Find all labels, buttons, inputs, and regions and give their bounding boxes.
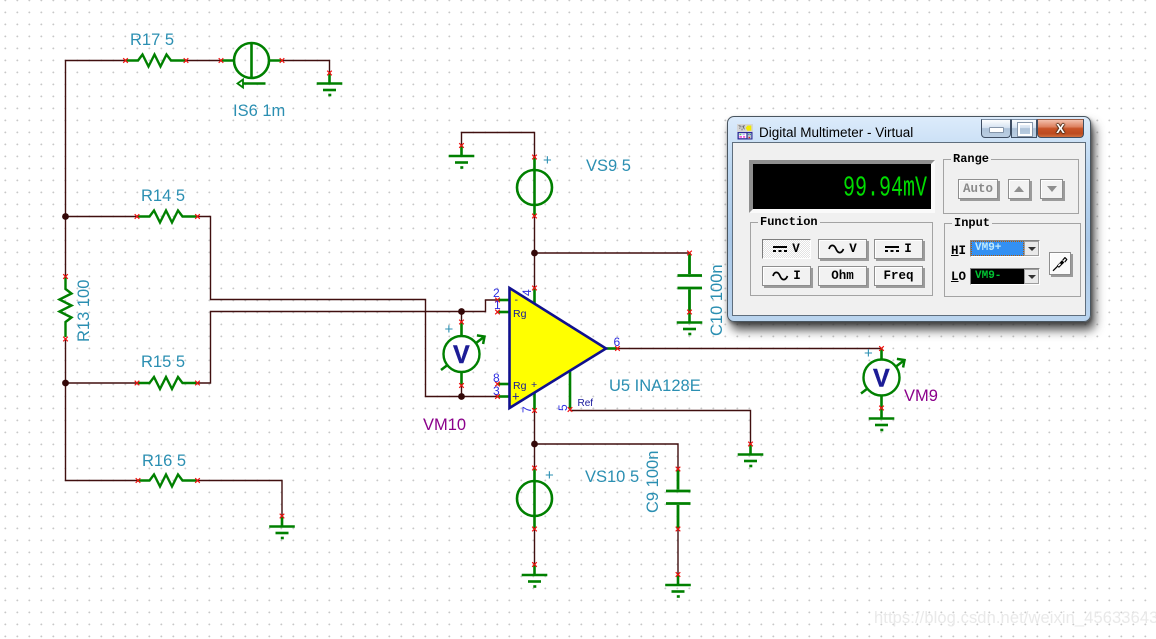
pin 2 stub xyxy=(498,299,511,302)
node x VM10 bottom xyxy=(459,383,464,388)
node x VS9 minus xyxy=(532,214,537,219)
down arrow button xyxy=(1040,179,1063,199)
ground G6 (Ref) xyxy=(738,444,764,466)
pin 8 stub xyxy=(498,383,511,386)
svg-text:+: + xyxy=(445,321,454,338)
svg-text:VM10: VM10 xyxy=(423,416,466,434)
svg-text:5: 5 xyxy=(556,404,570,411)
node x pin1 xyxy=(495,310,500,315)
node x VS9 plus xyxy=(532,155,537,160)
junction: left rail / R14 xyxy=(62,213,69,220)
junction: V- node xyxy=(531,441,538,448)
wire: IS6 right to ground G1 xyxy=(282,61,330,74)
node x C10 top xyxy=(687,251,692,256)
node x C9 bottom xyxy=(676,527,681,532)
LCD display xyxy=(749,160,935,213)
node x VS10 top xyxy=(532,466,537,471)
node x G8 xyxy=(280,514,285,519)
Function group xyxy=(750,222,933,296)
Digital Multimeter window xyxy=(727,116,1091,322)
node x R16 right xyxy=(195,478,200,483)
node x pin6 xyxy=(615,346,620,351)
node x G5 xyxy=(676,572,681,577)
node x VS10 bottom xyxy=(532,527,537,532)
junction: VM10 top / lower line xyxy=(458,308,465,315)
svg-text:R15 5: R15 5 xyxy=(141,353,185,371)
pin 7 stub xyxy=(533,392,536,411)
svg-text:R14 5: R14 5 xyxy=(141,187,185,205)
svg-text:C10 100n: C10 100n xyxy=(708,264,726,336)
wire: R14 right down to upper line across to pin3 line xyxy=(198,217,498,397)
wire: VM10 top tap xyxy=(461,312,463,323)
voltage source VS9 xyxy=(517,157,552,216)
node x R17 left xyxy=(123,58,128,63)
node x R13 bottom xyxy=(63,337,68,342)
current source IS6 xyxy=(221,43,282,88)
pin 1 stub xyxy=(498,311,511,314)
voltmeter VM9 xyxy=(861,349,905,409)
capacitor C10 xyxy=(678,253,703,312)
svg-text:IS6 1m: IS6 1m xyxy=(233,102,285,120)
node x G2 xyxy=(459,143,464,148)
wire: pin5 Ref to ground G6 xyxy=(570,411,751,445)
svg-text:R16 5: R16 5 xyxy=(142,452,186,470)
node x VM10 top xyxy=(459,320,464,325)
resistor R15 xyxy=(137,377,198,389)
voltmeter VM10 xyxy=(441,322,485,386)
Ohm button xyxy=(818,266,867,286)
wire: V- node to C9 top xyxy=(535,444,679,469)
terminal x marks xyxy=(63,58,884,577)
window buttons xyxy=(981,119,1011,138)
ground G2 (VS9 top) xyxy=(449,146,475,168)
wire: C9 bottom to ground G5 xyxy=(677,529,679,575)
pin 3 stub xyxy=(498,395,511,398)
wire: R15 node to R15 left xyxy=(66,382,138,384)
junction: left rail / R15 xyxy=(62,380,69,387)
HI combo xyxy=(970,240,1040,257)
AC I button xyxy=(762,266,811,286)
node x pin8 xyxy=(495,382,500,387)
svg-text:VS9 5: VS9 5 xyxy=(586,157,631,175)
node x VM9 bottom xyxy=(879,406,884,411)
svg-text:+: + xyxy=(545,467,554,484)
svg-text:R13 100: R13 100 xyxy=(75,280,93,342)
watermark xyxy=(874,609,1156,628)
LO label xyxy=(951,270,966,284)
node x pin3 xyxy=(495,394,500,399)
resistor R16 xyxy=(137,475,198,487)
ground G1 (IS6) xyxy=(317,73,343,95)
title text xyxy=(759,125,913,140)
LO combo xyxy=(970,268,1040,285)
svg-text:4: 4 xyxy=(520,289,534,296)
pin 6 stub xyxy=(606,347,618,350)
DC V button (pressed) xyxy=(762,239,811,259)
node x pin4 xyxy=(532,286,537,291)
node x C9 top xyxy=(676,467,681,472)
client area xyxy=(732,142,1086,316)
node x R16 left xyxy=(136,478,141,483)
resistor R17 xyxy=(126,55,187,67)
wire: R15 right up to lower line to pin2 jog xyxy=(198,300,498,383)
voltage source VS10 xyxy=(517,468,552,529)
svg-text:U5 INA128E: U5 INA128E xyxy=(609,377,701,395)
node x pin5 xyxy=(568,407,573,412)
pin 4 stub xyxy=(533,288,536,305)
wire: VM10 bottom tap xyxy=(461,386,463,397)
svg-text:8: 8 xyxy=(493,371,500,385)
up arrow button xyxy=(1008,179,1030,199)
Freq button xyxy=(874,266,923,286)
op-amp U1 pins stubs xyxy=(498,288,618,411)
ground G4 (VS10) xyxy=(522,565,548,587)
junction: V+ node xyxy=(531,250,538,257)
probe button xyxy=(1049,252,1071,275)
resistor R13 (vertical) xyxy=(60,277,72,338)
junction: VM10 bottom / pin3 line xyxy=(458,393,465,400)
ground G5 (C9) xyxy=(665,575,691,597)
ground G3 (C10) xyxy=(677,312,703,334)
node x G6 xyxy=(748,442,753,447)
svg-text:+: + xyxy=(531,379,537,391)
wire: R17 left lead to left rail and down to R14 node xyxy=(66,61,126,217)
svg-text:1: 1 xyxy=(494,298,501,312)
resistor R14 xyxy=(137,211,198,223)
wire: pin6 output to VM9 top xyxy=(618,348,882,350)
node x VM9 top xyxy=(879,346,884,351)
node x IS6 right xyxy=(280,58,285,63)
wire: VS9 minus down to V+ node and pin4 xyxy=(534,216,536,288)
pin 5 stub xyxy=(569,370,572,410)
svg-text:R17 5: R17 5 xyxy=(130,31,174,49)
Range group xyxy=(943,159,1079,214)
op-amp U5 INA128E triangle xyxy=(510,288,607,408)
node x R13 top xyxy=(63,274,68,279)
svg-text:Ref: Ref xyxy=(578,398,594,409)
node x R14 right xyxy=(195,214,200,219)
wire: R17 right to IS6 left xyxy=(186,60,221,62)
svg-text:3: 3 xyxy=(493,384,500,398)
Auto button xyxy=(958,179,998,199)
svg-text:+: + xyxy=(543,152,552,169)
wire: pin7 down to V- node and VS10 top xyxy=(534,411,536,469)
svg-text:VS10 5: VS10 5 xyxy=(585,468,639,486)
ground G7 (VM9) xyxy=(869,408,895,430)
svg-text:7: 7 xyxy=(520,406,534,413)
svg-text:VM9: VM9 xyxy=(904,387,938,405)
DC I button xyxy=(874,239,923,259)
HI label xyxy=(951,244,966,258)
wire: VS10 bottom to ground G4 xyxy=(534,529,536,565)
titlebar icon xyxy=(737,124,753,140)
svg-text:Rg: Rg xyxy=(513,308,527,320)
Input group xyxy=(944,223,1081,297)
wire: V+ node to C10 top xyxy=(535,252,690,254)
node x pin2 xyxy=(495,298,500,303)
wire: left rail R14 node to R13 top xyxy=(65,217,67,277)
wire: R13 bottom to R15 node to R16 corner xyxy=(66,339,139,481)
svg-text:+: + xyxy=(864,345,873,362)
svg-text:+: + xyxy=(512,389,520,404)
node x R15 left xyxy=(135,381,140,386)
wire: R16 right to ground G8 xyxy=(198,481,283,517)
node x G1 xyxy=(327,71,332,76)
capacitor C9 xyxy=(666,469,691,529)
node x G4 xyxy=(532,562,537,567)
wire: R14 node to R14 left xyxy=(66,216,138,218)
ground G8 (R16) xyxy=(269,516,295,538)
svg-text:-: - xyxy=(515,294,519,306)
AC V button xyxy=(818,239,867,259)
svg-text:C9 100n: C9 100n xyxy=(644,451,662,513)
node x R14 left xyxy=(135,214,140,219)
node x pin7 xyxy=(532,408,537,413)
node x C10 bottom xyxy=(687,310,692,315)
svg-text:6: 6 xyxy=(614,335,621,349)
node x R17 right xyxy=(184,58,189,63)
node x R15 right xyxy=(195,381,200,386)
wire: VS9 plus up over to ground G2 xyxy=(462,133,535,158)
node x IS6 left xyxy=(219,58,224,63)
